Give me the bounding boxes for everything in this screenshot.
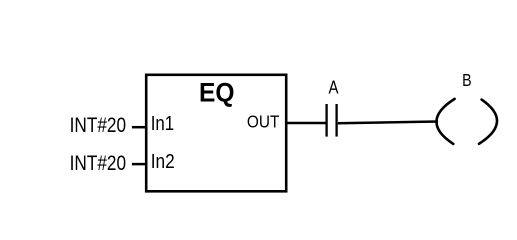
svg-text:INT#20: INT#20 xyxy=(70,113,127,137)
svg-text:In1: In1 xyxy=(151,112,175,135)
svg-text:EQ: EQ xyxy=(199,77,235,107)
coil B right parenthesis xyxy=(479,100,497,144)
wire stub to In2 xyxy=(132,163,146,166)
wire stub to In1 xyxy=(132,126,146,129)
svg-text:In2: In2 xyxy=(151,150,175,173)
svg-text:OUT: OUT xyxy=(247,111,280,131)
wire contact A to coil B xyxy=(338,122,438,124)
wire OUT to contact A xyxy=(286,122,326,125)
svg-text:A: A xyxy=(329,77,340,98)
function block U1 (EQ comparator) box xyxy=(146,75,286,192)
contact A left bar xyxy=(325,104,327,137)
svg-text:B: B xyxy=(462,70,472,90)
svg-text:INT#20: INT#20 xyxy=(70,151,127,175)
contact A right bar xyxy=(335,104,337,137)
coil B left parenthesis xyxy=(436,99,454,144)
